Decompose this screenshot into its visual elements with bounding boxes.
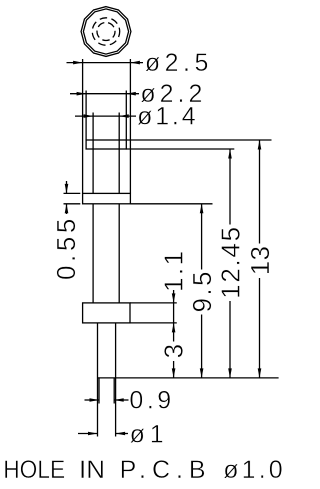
arrow ø1 left [88, 432, 98, 436]
top view: hidden circle pin ø1 (dashed) [97, 23, 115, 41]
extension: collar bottom to 9.5 [130, 203, 212, 205]
arrow 9.5 top (points up) [200, 204, 204, 214]
dim 0.55 upper stub [66, 181, 68, 193]
arrow ø2.2 right [126, 92, 136, 96]
dim ø1 line right segment [116, 433, 128, 435]
extension: collar bottom left for 0.55 [64, 203, 81, 205]
dim 13 lower segment [259, 278, 261, 378]
extension: bottom flange bottom to 1.1/3 [130, 322, 177, 324]
dim ø1.4 line [75, 115, 136, 117]
arrow 0.55 top (points down) [65, 184, 69, 194]
dim 0.55 lower stub [66, 204, 68, 214]
front view: collar ø2.5 [83, 193, 131, 203]
front view: body ø1.4 right line [118, 113, 120, 194]
extension: flange top to 13 [126, 139, 271, 141]
front view: pin ø1 left [97, 323, 99, 437]
arrow ø2.5 left (points right) [73, 61, 83, 65]
extension: collar top left for 0.55 [64, 192, 81, 194]
arrow 0.9 left [90, 398, 100, 402]
dim 9.5 lower segment [201, 315, 203, 378]
dim 12.45 upper segment [229, 149, 231, 225]
dim 3 upper segment [173, 323, 175, 342]
dim 3 lower segment [173, 361, 175, 378]
arrow ø1.4 right [119, 114, 129, 118]
svg-text:1.1: 1.1 [158, 251, 188, 292]
dim 1.1 upper stub [173, 290, 175, 303]
svg-text:ø2.5: ø2.5 [145, 49, 209, 77]
PCB surface line [98, 377, 279, 379]
front view: pin tip 0.9 right [113, 378, 115, 404]
front view: body below collar right [118, 204, 120, 303]
svg-text:0.9: 0.9 [129, 387, 171, 415]
front view: pin tip 0.9 left [98, 378, 100, 404]
svg-text:12.45: 12.45 [216, 227, 246, 299]
front view: ø2.2 right extension [125, 91, 127, 141]
dim 9.5 upper segment [201, 204, 203, 270]
dim ø2.2 line [70, 93, 139, 95]
dim ø1 line left segment [78, 433, 98, 435]
svg-text:3: 3 [159, 344, 189, 358]
extension: flange bottom to 12.45 [126, 148, 234, 150]
dim 0.9 line left segment [78, 400, 129, 434]
dim 0.9 line right segment [114, 399, 128, 401]
dim 12.45 lower segment [229, 301, 231, 378]
arrow 1.1 bottom / 3 top (points up at flange bottom) [172, 323, 176, 333]
dim 13 upper segment [259, 140, 261, 244]
svg-text:9.5: 9.5 [187, 272, 217, 313]
front view: body ø1.4 left line [92, 113, 94, 194]
arrow 1.1 top (points down at flange top) [172, 293, 176, 303]
arrow ø1.4 left [84, 114, 94, 118]
dim ø2.5 line [67, 62, 144, 64]
top view: knurled head outer 12-gon [81, 7, 131, 57]
svg-text:IN: IN [79, 456, 105, 484]
arrow 13 top [258, 140, 262, 150]
arrow 13 bottom [258, 368, 262, 378]
arrow 12.45 bottom [228, 368, 232, 378]
svg-text:P.C.B: P.C.B [120, 456, 206, 484]
front view: pin ø1 right [115, 323, 117, 437]
arrow ø2.2 left [77, 92, 87, 96]
arrow ø1 right [116, 432, 126, 436]
arrow 12.45 top [228, 149, 232, 159]
front view: bottom flange ø2.5 [83, 303, 130, 323]
arrow 9.5 bottom (points down) [200, 368, 204, 378]
svg-text:0.55: 0.55 [51, 219, 81, 280]
svg-text:13: 13 [245, 246, 275, 275]
top view: hidden circle body ø1.4 (dashed) [92, 18, 119, 45]
arrow 3 bottom (points down at PCB) [172, 368, 176, 378]
svg-text:ø1.0: ø1.0 [223, 456, 283, 484]
arrow ø2.5 right (points left) [130, 61, 140, 65]
front view: head ø2.5 right line / extension [129, 59, 131, 193]
front view: head ø2.5 left line / extension [82, 59, 84, 193]
arrow 0.55 bottom (points up) [65, 204, 69, 214]
front view: ø2.2 left extension [85, 91, 87, 141]
extension: bottom flange top to 1.1 [130, 302, 177, 304]
svg-text:HOLE: HOLE [3, 456, 65, 484]
front view: upper flange ø2.2 [86, 140, 126, 149]
dim 1.1/3 through flange [173, 303, 175, 323]
arrow 0.9 right [114, 398, 124, 402]
front view: body below collar left [92, 204, 94, 303]
svg-text:ø1.4: ø1.4 [137, 103, 196, 131]
top view: inner 12-gon [83, 9, 128, 54]
